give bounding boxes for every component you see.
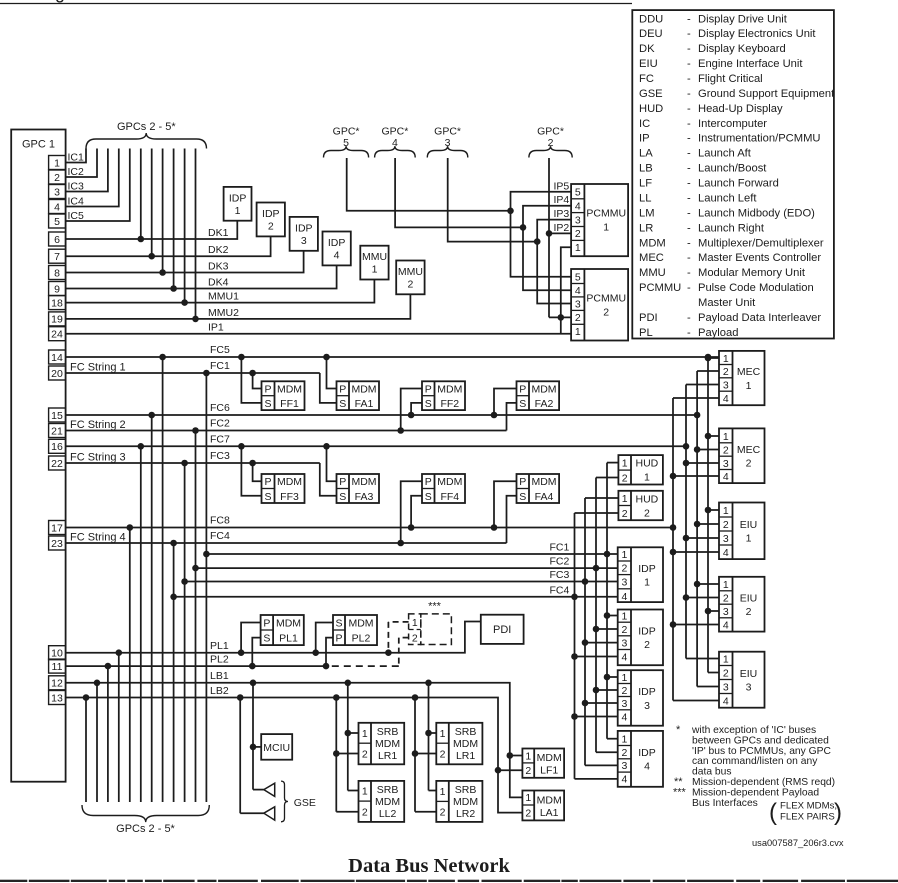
- FC8 right vertical: [672, 398, 674, 701]
- bus PL1 wire: [66, 622, 481, 653]
- svg-text:Pulse Code Modulation: Pulse Code Modulation: [698, 282, 814, 294]
- svg-text:1: 1: [746, 533, 752, 545]
- GPC*3 feeder wire: [448, 158, 538, 242]
- MCIU wires: [250, 680, 262, 790]
- svg-text:Data Bus Network: Data Bus Network: [348, 855, 510, 877]
- svg-text:PCMMU: PCMMU: [586, 293, 626, 305]
- svg-text:1: 1: [575, 242, 581, 254]
- svg-text:(: (: [769, 799, 777, 826]
- svg-text:'IP' bus to PCMMUs, any GPC: 'IP' bus to PCMMUs, any GPC: [692, 746, 832, 757]
- MDM FF1 wires: [238, 354, 261, 403]
- GPC 2-5 vertical for MMU1: [181, 149, 188, 306]
- svg-text:MDM: MDM: [639, 237, 666, 249]
- svg-text:IDP: IDP: [638, 563, 656, 575]
- svg-text:Instrumentation/PCMMU: Instrumentation/PCMMU: [698, 133, 820, 145]
- svg-text:5: 5: [343, 137, 349, 149]
- svg-text:Master Unit: Master Unit: [698, 297, 756, 309]
- svg-text:1: 1: [440, 728, 446, 740]
- svg-text:4: 4: [392, 137, 398, 149]
- svg-text:4: 4: [723, 393, 729, 405]
- svg-text:FC1: FC1: [550, 542, 570, 554]
- svg-text:with exception of 'IC' buses: with exception of 'IC' buses: [691, 725, 816, 736]
- svg-text:S: S: [519, 491, 526, 503]
- bus FC7 wire: [66, 433, 690, 449]
- svg-text:2: 2: [268, 221, 274, 233]
- GPC 2-5 vertical for DK2: [148, 149, 155, 260]
- svg-text:3: 3: [723, 458, 729, 470]
- MDM FF4 wires: [397, 481, 422, 546]
- svg-text:LR1: LR1: [456, 750, 475, 762]
- svg-text:21: 21: [51, 425, 63, 437]
- svg-text:Display Keyboard: Display Keyboard: [698, 43, 786, 55]
- svg-text:Intercomputer: Intercomputer: [698, 118, 767, 130]
- MDM FA1 wires: [320, 354, 337, 403]
- GPC 2-5 vertical for DK1: [138, 149, 145, 243]
- svg-text:FC String 4: FC String 4: [70, 532, 126, 544]
- svg-text:FA3: FA3: [355, 491, 374, 503]
- svg-text:MDM: MDM: [537, 795, 562, 807]
- svg-text:FF1: FF1: [280, 398, 299, 410]
- svg-text:1: 1: [362, 728, 368, 740]
- svg-text:LR: LR: [639, 222, 653, 234]
- svg-text:DK4: DK4: [208, 277, 229, 289]
- MDM FA2: [517, 381, 560, 410]
- svg-text:IC1: IC1: [68, 152, 85, 164]
- bottom cropped text row: [0, 880, 898, 882]
- MDM FA3 wires: [320, 443, 337, 496]
- svg-text:3: 3: [301, 235, 307, 247]
- svg-text:S: S: [263, 633, 270, 645]
- svg-text:GPC*: GPC*: [381, 126, 408, 138]
- svg-text:LR1: LR1: [378, 750, 397, 762]
- svg-text:PDI: PDI: [639, 312, 658, 324]
- svg-text:2: 2: [548, 137, 554, 149]
- svg-text:MDM: MDM: [351, 384, 376, 396]
- PCMMU 1 box: [571, 184, 628, 256]
- svg-text:4: 4: [644, 761, 650, 773]
- svg-text:DK3: DK3: [208, 261, 229, 273]
- svg-text:Display Electronics Unit: Display Electronics Unit: [698, 28, 816, 40]
- svg-text:Modular Memory Unit: Modular Memory Unit: [698, 267, 806, 279]
- svg-text:1: 1: [622, 493, 628, 505]
- svg-text:MMU2: MMU2: [208, 307, 239, 319]
- svg-text:usa007587_206r3.cvx: usa007587_206r3.cvx: [752, 838, 844, 848]
- IDP 4 box: [618, 731, 663, 787]
- svg-text:EIU: EIU: [740, 519, 758, 531]
- GPC 2-5 vertical for FC7: [138, 443, 145, 802]
- svg-text:DDU: DDU: [639, 13, 663, 25]
- bus DK1: wire from GPC1 to IDP 1: [66, 221, 238, 239]
- svg-text:SRB: SRB: [455, 726, 477, 738]
- svg-text:FF2: FF2: [440, 398, 459, 410]
- svg-text:4: 4: [621, 591, 627, 603]
- svg-text:8: 8: [54, 267, 60, 279]
- HUD 2 wires: [575, 498, 619, 513]
- net IC4: stub from GPC1 port 4 and GPC 2-5 vertical: [66, 149, 119, 208]
- svg-text:4: 4: [723, 547, 729, 559]
- svg-text:Launch Aft: Launch Aft: [698, 148, 752, 160]
- svg-text:Head-Up Display: Head-Up Display: [698, 103, 783, 115]
- bus FC1 wire: [66, 360, 320, 374]
- svg-text:SRB: SRB: [377, 726, 399, 738]
- svg-text:14: 14: [51, 352, 63, 364]
- svg-text:3: 3: [575, 214, 581, 226]
- svg-text:P: P: [264, 476, 271, 488]
- svg-text:Ground Support Equipment: Ground Support Equipment: [698, 88, 835, 100]
- svg-text:S: S: [519, 398, 526, 410]
- GPC*5 feeder wire: [347, 158, 511, 211]
- svg-text:GPC*: GPC*: [434, 126, 461, 138]
- svg-text:Bus Interfaces: Bus Interfaces: [692, 798, 758, 809]
- svg-text:2: 2: [525, 807, 531, 819]
- svg-text:FLEX MDMs,: FLEX MDMs,: [780, 801, 837, 812]
- svg-text:2: 2: [603, 307, 609, 319]
- svg-text:MDM: MDM: [437, 476, 462, 488]
- bus FC4 distribution wire to IDP column: [170, 584, 617, 600]
- svg-text:LA: LA: [639, 148, 653, 160]
- GPC 2-5 vertical for DK3: [159, 149, 166, 276]
- svg-text:-: -: [687, 103, 691, 115]
- MDM PL2: [333, 615, 377, 645]
- svg-text:Launch/Boost: Launch/Boost: [698, 163, 767, 175]
- GPC*4 feeder wire: [395, 158, 523, 227]
- svg-text:1: 1: [723, 431, 729, 443]
- GPC 2-5 vertical for FC8: [127, 524, 134, 802]
- svg-text:15: 15: [51, 410, 63, 422]
- svg-text:3: 3: [575, 298, 581, 310]
- svg-text:Payload: Payload: [698, 327, 738, 339]
- MDM FA3: [337, 474, 380, 503]
- svg-text:2: 2: [621, 685, 627, 697]
- svg-text:-: -: [687, 148, 691, 160]
- svg-text:IP2: IP2: [554, 222, 570, 234]
- GPCs 2-5 top brace: [86, 121, 207, 149]
- svg-text:LF1: LF1: [540, 765, 558, 777]
- dashed wire flex pin2 to PL2: [326, 638, 409, 667]
- svg-text:-: -: [687, 13, 691, 25]
- svg-text:-: -: [687, 118, 691, 130]
- GPC 2-5 vertical for DK4: [170, 149, 177, 292]
- svg-text:20: 20: [51, 368, 63, 380]
- svg-text:18: 18: [51, 297, 63, 309]
- svg-text:MDM: MDM: [531, 476, 556, 488]
- svg-text:PL2: PL2: [210, 654, 229, 666]
- svg-text:EIU: EIU: [740, 668, 758, 680]
- svg-text:1: 1: [235, 205, 241, 217]
- svg-text:FC String 2: FC String 2: [70, 419, 126, 431]
- svg-text:2: 2: [723, 519, 729, 531]
- svg-text:DK: DK: [639, 43, 655, 55]
- svg-text:FC1: FC1: [210, 360, 230, 372]
- GPC 2-5 vertical for FC1: [203, 370, 210, 802]
- footnotes: [673, 724, 835, 809]
- svg-text:24: 24: [51, 329, 63, 341]
- svg-text:2: 2: [723, 366, 729, 378]
- MEC 1 box: [719, 351, 765, 405]
- svg-text:PCMMU: PCMMU: [586, 208, 626, 220]
- svg-text:P: P: [264, 384, 271, 396]
- svg-text:IDP: IDP: [638, 747, 656, 759]
- EIU 1 box: [719, 503, 765, 560]
- svg-text:FA2: FA2: [535, 398, 554, 410]
- svg-text:3: 3: [723, 606, 729, 618]
- svg-text:PL1: PL1: [210, 640, 229, 652]
- IDP 3 box: [618, 670, 663, 726]
- SRB MDM LR1 (left): [359, 723, 405, 765]
- svg-text:SRB: SRB: [377, 784, 399, 796]
- drawing number: [752, 838, 844, 848]
- memory unit MMU 2: [396, 261, 424, 295]
- bus FC6 wire: [66, 402, 701, 418]
- svg-text:PDI: PDI: [493, 624, 511, 636]
- svg-text:2: 2: [525, 765, 531, 777]
- svg-text:3: 3: [723, 533, 729, 545]
- svg-text:2: 2: [621, 563, 627, 575]
- svg-text:IP1: IP1: [208, 322, 224, 334]
- net IP1: long bus from GPC1 port 24 to PCMMU2 pin 1: [66, 247, 571, 333]
- FC distribution vertical x=585: [584, 498, 586, 765]
- svg-text:3: 3: [644, 700, 650, 712]
- svg-text:IDP: IDP: [262, 208, 280, 220]
- svg-text:IC3: IC3: [68, 181, 85, 193]
- svg-text:MDM: MDM: [276, 618, 301, 630]
- svg-text:PL: PL: [639, 327, 653, 339]
- svg-text:17: 17: [51, 522, 63, 534]
- svg-text:S: S: [339, 491, 346, 503]
- FC6 right vertical: [696, 371, 698, 687]
- svg-text:S: S: [264, 491, 271, 503]
- dashed wire flex pin1 to PL1: [385, 622, 409, 656]
- svg-text:P: P: [519, 476, 526, 488]
- MDM FF4: [422, 474, 465, 503]
- net IC5: stub from GPC1 port 5 and GPC 2-5 vertical: [66, 149, 130, 223]
- svg-text:2: 2: [412, 633, 418, 645]
- EIU 3 box: [719, 652, 765, 708]
- HUD 1: [618, 455, 663, 484]
- MDM PL1: [261, 615, 304, 645]
- svg-text:5: 5: [575, 187, 581, 199]
- PCMMU 2 box: [571, 269, 628, 341]
- svg-text:2: 2: [723, 667, 729, 679]
- svg-text:4: 4: [621, 711, 627, 723]
- svg-text:FC String 1: FC String 1: [70, 362, 126, 374]
- MDM FA2 wires: [491, 389, 517, 431]
- svg-text:IC4: IC4: [68, 196, 85, 208]
- svg-text:IP: IP: [639, 133, 650, 145]
- MDM FA4 wires: [491, 481, 517, 543]
- svg-text:PL2: PL2: [352, 633, 371, 645]
- svg-text:LR2: LR2: [456, 808, 475, 820]
- MDM PL2 wires: [312, 623, 333, 670]
- svg-text:2: 2: [621, 747, 627, 759]
- svg-text:4: 4: [723, 471, 729, 483]
- svg-text:GPCs 2 - 5*: GPCs 2 - 5*: [116, 823, 175, 835]
- FC7 right vertical: [685, 385, 687, 659]
- svg-text:MMU: MMU: [398, 266, 423, 278]
- svg-text:3: 3: [621, 576, 627, 588]
- svg-text:MDM: MDM: [375, 796, 400, 808]
- bus FC4 wire: [66, 530, 507, 544]
- svg-text:1: 1: [372, 264, 378, 276]
- svg-text:1: 1: [621, 610, 627, 622]
- svg-text:P: P: [425, 384, 432, 396]
- svg-text:EIU: EIU: [740, 592, 758, 604]
- svg-text:S: S: [335, 618, 342, 630]
- svg-text:2: 2: [54, 172, 60, 184]
- bus FC2 distribution wire to IDP column: [192, 556, 618, 572]
- EIU 3 wires: [673, 659, 719, 701]
- HUD 2: [618, 491, 663, 520]
- svg-text:3: 3: [723, 681, 729, 693]
- svg-text:MDM: MDM: [277, 384, 302, 396]
- svg-text:4: 4: [723, 619, 729, 631]
- svg-text:g: g: [55, 0, 65, 3]
- GPC* 5 brace: [324, 126, 369, 158]
- GPC 2-5 vertical for PL1: [116, 649, 123, 802]
- svg-text:-: -: [687, 282, 691, 294]
- heading text fragment (cropped): [55, 0, 65, 3]
- svg-text:MDM: MDM: [277, 476, 302, 488]
- svg-text:S: S: [264, 398, 271, 410]
- GPC 2-5 vertical for MMU2: [192, 149, 199, 323]
- svg-text:LA1: LA1: [540, 807, 559, 819]
- svg-text:1: 1: [362, 785, 368, 797]
- memory unit MMU 1: [360, 246, 388, 280]
- net IP2: GPC*2 vertical to PCMMU pins 2: [546, 158, 571, 321]
- svg-text:FC String 3: FC String 3: [70, 452, 126, 464]
- svg-text:P: P: [339, 476, 346, 488]
- svg-text:IDP: IDP: [328, 237, 346, 249]
- svg-text:4: 4: [621, 774, 627, 786]
- svg-text:MDM: MDM: [453, 796, 478, 808]
- svg-text:1: 1: [621, 672, 627, 684]
- svg-text:2: 2: [621, 624, 627, 636]
- net IP3: [534, 208, 571, 303]
- svg-text:IDP: IDP: [229, 192, 247, 204]
- svg-text:LB: LB: [639, 163, 653, 175]
- svg-text:12: 12: [51, 678, 63, 690]
- MDM FF3: [262, 474, 305, 503]
- svg-text:19: 19: [51, 314, 63, 326]
- svg-text:GSE: GSE: [639, 88, 663, 100]
- GPC 2-5 vertical for LB1: [94, 680, 101, 803]
- svg-text:Master Events Controller: Master Events Controller: [698, 252, 821, 264]
- svg-text:MCIU: MCIU: [263, 742, 290, 754]
- GPC 2-5 vertical for FC4: [170, 540, 177, 802]
- title: [348, 855, 510, 877]
- net IC2: stub from GPC1 port 2 and GPC 2-5 vertical: [66, 149, 97, 179]
- svg-text:-: -: [687, 163, 691, 175]
- svg-text:FC4: FC4: [550, 584, 570, 596]
- svg-text:HUD: HUD: [636, 458, 659, 470]
- svg-text:LB2: LB2: [210, 685, 229, 697]
- svg-text:PCMMU: PCMMU: [639, 282, 681, 294]
- svg-text:EIU: EIU: [639, 58, 658, 70]
- svg-text:-: -: [687, 252, 691, 264]
- svg-text:1: 1: [723, 505, 729, 517]
- net IP4: [520, 194, 571, 290]
- svg-text:FF3: FF3: [280, 491, 299, 503]
- svg-text:GPC*: GPC*: [537, 126, 564, 138]
- svg-text:FC3: FC3: [210, 450, 230, 462]
- svg-text:2: 2: [362, 807, 368, 819]
- svg-text:2: 2: [575, 312, 581, 324]
- svg-text:-: -: [687, 73, 691, 85]
- GSE wire 2: [237, 694, 264, 813]
- svg-text:IC2: IC2: [68, 166, 85, 178]
- svg-text:FA1: FA1: [355, 398, 374, 410]
- svg-text:4: 4: [54, 201, 60, 213]
- svg-text:Launch Midbody (EDO): Launch Midbody (EDO): [698, 207, 815, 219]
- GPC 2-5 vertical for FC2: [192, 427, 199, 802]
- bus FC3 distribution wire to IDP column: [181, 569, 617, 585]
- svg-text:MEC: MEC: [737, 444, 761, 456]
- svg-text:1: 1: [723, 653, 729, 665]
- svg-text:FLEX PAIRS: FLEX PAIRS: [780, 812, 835, 823]
- svg-text:-: -: [687, 222, 691, 234]
- svg-text:HUD: HUD: [639, 103, 663, 115]
- svg-text:2: 2: [440, 807, 446, 819]
- svg-text:3: 3: [445, 137, 451, 149]
- svg-text:FA4: FA4: [535, 491, 554, 503]
- IDP 3 wires: [571, 674, 618, 720]
- svg-text:***: ***: [673, 787, 687, 799]
- net IC1: stub from GPC1 port 1 and GPC 2-5 vertical: [66, 149, 86, 164]
- svg-text:1: 1: [644, 472, 650, 484]
- svg-text:1: 1: [621, 734, 627, 746]
- svg-text:10: 10: [51, 648, 63, 660]
- SRB MDM LR1 (right): [436, 723, 482, 765]
- SRB LB1 right vertical: [425, 680, 436, 791]
- bus FC2 wire: [66, 418, 507, 432]
- svg-text:2: 2: [440, 748, 446, 760]
- display unit IDP 2 (DK): [257, 203, 285, 237]
- svg-text:-: -: [687, 133, 691, 145]
- svg-text:2: 2: [622, 472, 628, 484]
- svg-text:data bus: data bus: [692, 767, 732, 778]
- svg-text:1: 1: [525, 792, 531, 804]
- svg-text:MDM: MDM: [531, 384, 556, 396]
- svg-text:-: -: [687, 237, 691, 249]
- svg-text:FC2: FC2: [210, 418, 230, 430]
- SRB MDM LR2: [436, 781, 482, 822]
- svg-text:S: S: [339, 398, 346, 410]
- MDM LA1: [522, 791, 564, 821]
- GPC* 3 brace: [427, 126, 468, 158]
- IDP 2 wires: [571, 612, 618, 660]
- svg-text:Launch Left: Launch Left: [698, 193, 757, 205]
- svg-text:3: 3: [723, 379, 729, 391]
- svg-text:IC5: IC5: [68, 210, 85, 222]
- svg-text:MEC: MEC: [639, 252, 664, 264]
- MDM FF1: [262, 381, 305, 410]
- GPC 2-5 vertical for PL2: [105, 663, 112, 802]
- SRB MDM LL2: [359, 781, 405, 822]
- svg-text:4: 4: [334, 250, 340, 262]
- svg-text:-: -: [687, 43, 691, 55]
- svg-text:***: ***: [428, 601, 442, 613]
- svg-text:Mission-dependent Payload: Mission-dependent Payload: [692, 788, 819, 799]
- svg-text:1: 1: [575, 326, 581, 338]
- GPCs 2-5 bottom brace: [82, 805, 209, 835]
- svg-text:5: 5: [54, 216, 60, 228]
- bus DK2: wire from GPC1 to IDP 2: [66, 236, 271, 256]
- MDM FA4: [517, 474, 560, 503]
- bus MMU2: wire from GPC1 to MMU 2: [66, 294, 411, 319]
- svg-text:S: S: [425, 398, 432, 410]
- bus PL2 wire: [66, 654, 326, 667]
- svg-text:P: P: [519, 384, 526, 396]
